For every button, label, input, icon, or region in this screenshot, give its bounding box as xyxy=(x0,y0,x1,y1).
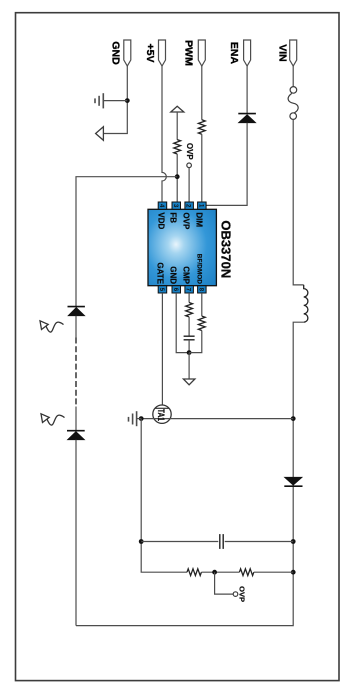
wire PWM to pin1 xyxy=(201,134,203,202)
wire pin8 to junction xyxy=(189,331,202,353)
wire junction to arrow xyxy=(188,353,190,379)
node pin678 junction xyxy=(187,350,192,355)
connector PWM xyxy=(198,40,205,66)
wire ENA to DIM pin xyxy=(206,123,247,206)
wire RS2 to rail xyxy=(254,571,293,573)
transistor Q1 TA1 xyxy=(153,405,171,423)
svg-text:OVP: OVP xyxy=(238,586,247,602)
svg-text:DIM: DIM xyxy=(195,212,204,227)
wire to LED2 xyxy=(75,407,77,431)
node FB junction xyxy=(175,174,180,179)
wire source down xyxy=(141,419,187,573)
wire cap to junction xyxy=(188,340,190,353)
IC U1 OB3370N body xyxy=(148,209,216,285)
wire LED2 down xyxy=(75,440,77,626)
node res junction right xyxy=(291,570,296,575)
pin 3 box xyxy=(172,202,181,209)
pin 2 box xyxy=(185,202,194,209)
connector VIN xyxy=(290,40,297,66)
resistor RS1 xyxy=(187,569,201,576)
wire pin8 top xyxy=(201,293,203,316)
svg-text:OVP: OVP xyxy=(185,143,194,161)
svg-text:VDD: VDD xyxy=(157,212,166,229)
pin 4 box xyxy=(158,202,167,209)
pin 7 box xyxy=(185,286,194,293)
wire dashed LED string xyxy=(75,338,77,407)
node sense junction xyxy=(212,570,217,575)
resistor DMOD xyxy=(198,316,205,330)
inductor L1 xyxy=(304,285,308,322)
wire pin6 GND xyxy=(176,293,189,353)
wire PWM top xyxy=(201,66,203,120)
wire VIN top xyxy=(292,66,294,87)
LED light arrow 1 xyxy=(40,321,64,332)
svg-text:TA1: TA1 xyxy=(156,409,166,421)
wire VIN to inductor xyxy=(293,119,304,285)
svg-text:GATE: GATE xyxy=(156,262,165,284)
svg-text:GND: GND xyxy=(168,266,177,284)
wire FB to LED string (horizontal) xyxy=(76,177,177,307)
svg-text:OB3370N: OB3370N xyxy=(218,220,233,278)
connector +5V xyxy=(159,40,166,66)
wire OVP stub xyxy=(215,572,234,594)
connector ENA xyxy=(244,40,251,66)
arrow left (GND) xyxy=(96,127,104,141)
svg-text:FB: FB xyxy=(168,212,177,223)
wire RS1 to node xyxy=(201,571,239,573)
node source junction xyxy=(139,416,144,421)
node cap line left xyxy=(139,539,144,544)
wire GND vertical xyxy=(103,66,127,134)
pin 1 box xyxy=(198,202,207,209)
svg-text:+5V: +5V xyxy=(144,44,156,63)
ground symbol top xyxy=(95,93,127,108)
resistor RS2 xyxy=(239,569,253,576)
arrow up (FB branch supply) xyxy=(171,106,184,112)
wire CMP res to cap xyxy=(188,317,190,336)
LED light arrow 2 xyxy=(41,414,65,425)
pin 8 box xyxy=(198,286,207,293)
capacitor CMP xyxy=(184,335,195,337)
node GND junction xyxy=(125,98,130,103)
svg-text:GND: GND xyxy=(109,41,121,65)
wire LED1 down xyxy=(75,316,77,338)
capacitor C2 xyxy=(219,534,221,549)
resistor FB xyxy=(174,140,181,154)
svg-text:OVP: OVP xyxy=(182,212,191,230)
wire inductor out xyxy=(76,322,304,625)
wire FB branch vertical xyxy=(176,112,178,140)
svg-text:VIN: VIN xyxy=(276,44,288,62)
wire +5V to VDD with hop xyxy=(162,66,166,202)
LED D3 xyxy=(68,306,85,308)
fuse F1 xyxy=(290,87,297,94)
wire ENA top xyxy=(246,66,248,114)
net label OVP (bottom) xyxy=(233,592,238,597)
pin 5 box xyxy=(158,286,167,293)
node cap junction right xyxy=(291,539,296,544)
connector GND xyxy=(124,40,131,66)
resistor CMP xyxy=(186,303,193,317)
pin 6 box xyxy=(172,286,181,293)
wire FB resistor to pin3 xyxy=(176,154,178,202)
svg-text:BF/DMOD: BF/DMOD xyxy=(196,254,203,285)
wire cap line left xyxy=(141,541,218,543)
wire pin7 top xyxy=(188,293,190,303)
arrow down (signal ground) xyxy=(183,379,195,385)
wire GATE to Q1 xyxy=(161,293,163,405)
wire cap line right xyxy=(225,541,294,543)
node drain junction xyxy=(291,416,296,421)
net label OVP (top) xyxy=(187,163,192,168)
LED D4 xyxy=(67,430,85,432)
wire OVP to pin2 xyxy=(188,168,190,202)
svg-text:PWM: PWM xyxy=(183,40,195,66)
diode D2 (rectifier, pointing down) xyxy=(284,477,302,485)
svg-text:ENA: ENA xyxy=(228,42,240,65)
resistor PWM xyxy=(198,120,205,134)
diode D1 (ENA, cathode up) xyxy=(238,113,256,115)
ground symbol Q1 xyxy=(129,411,142,426)
svg-text:CMP: CMP xyxy=(182,266,191,284)
